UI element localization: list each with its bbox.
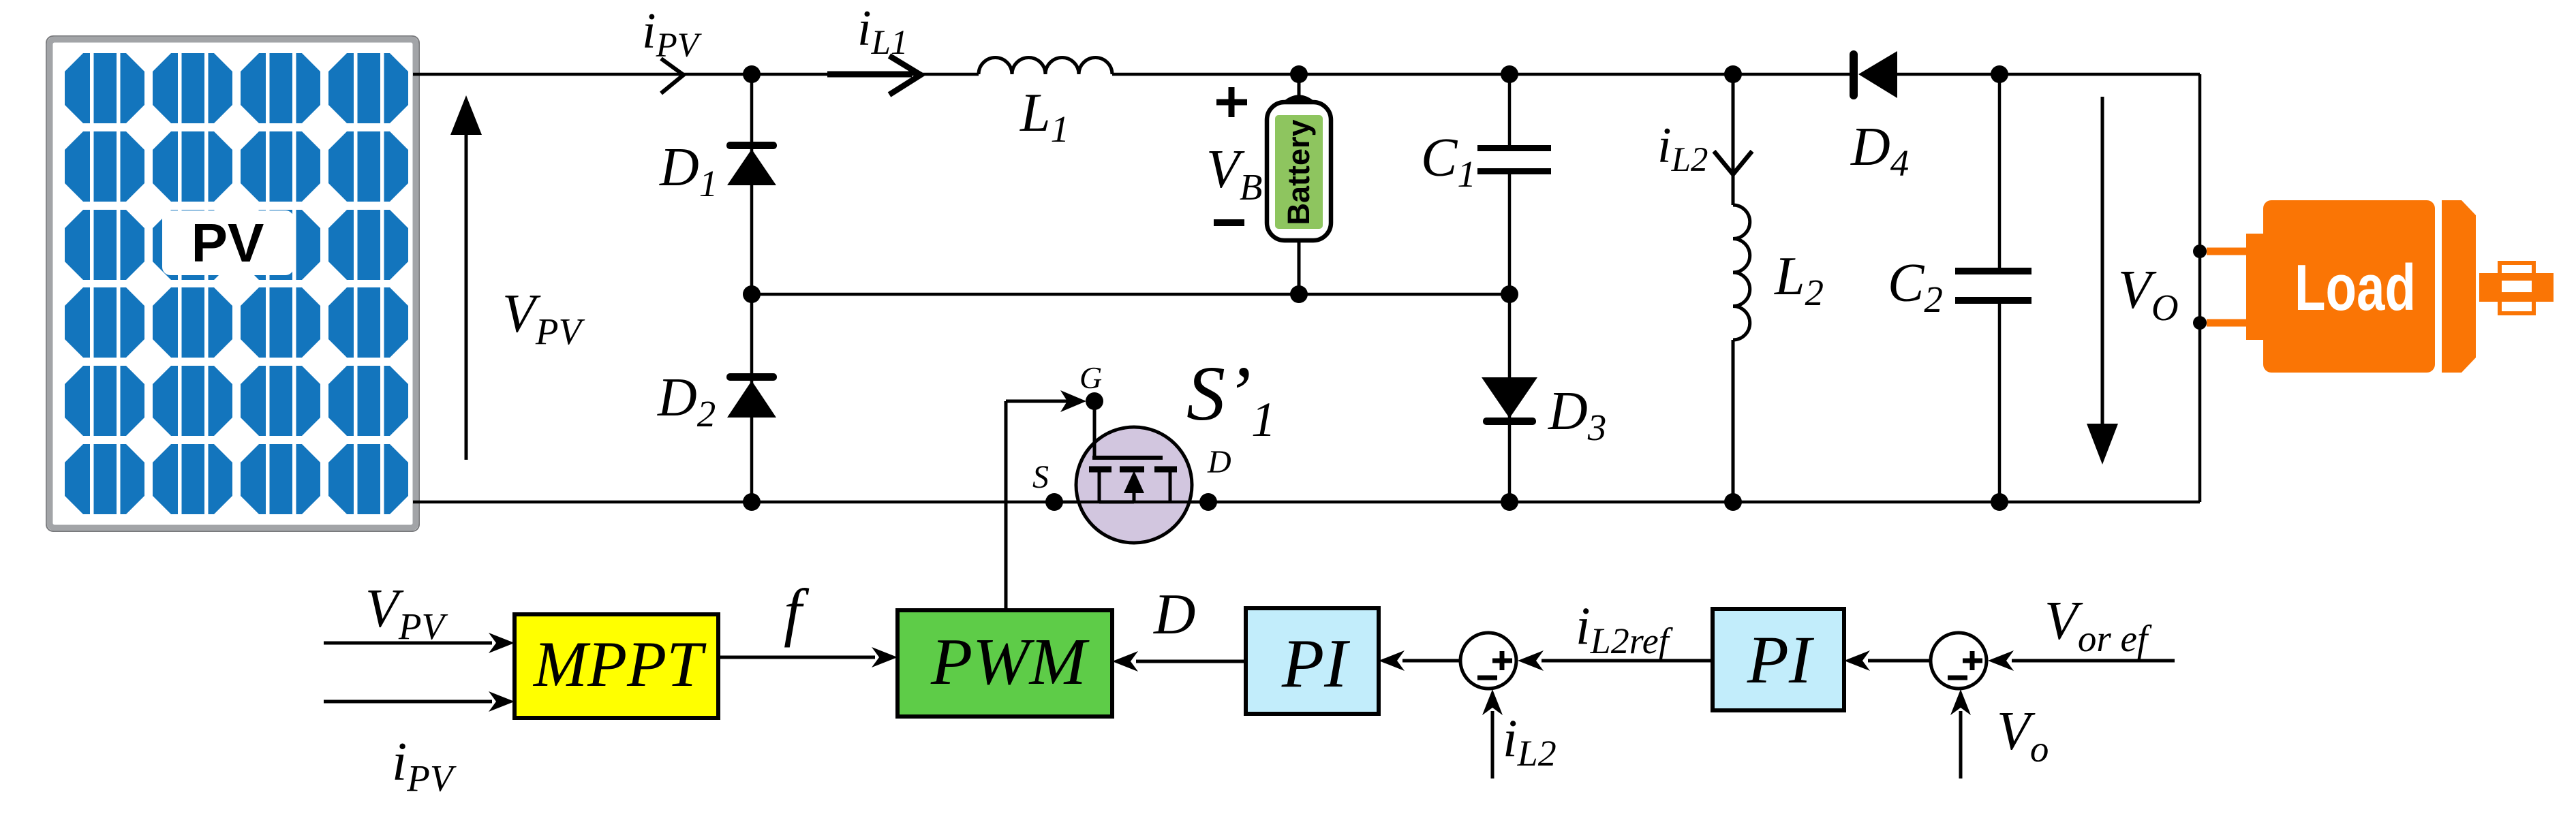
node A junction of D1 <box>743 65 761 83</box>
wire D3 branch <box>1508 294 1512 502</box>
wire right output branch <box>2198 74 2202 502</box>
wire f arrow <box>718 647 898 667</box>
wire top bus after D4 <box>1895 73 2200 76</box>
wire load stub top <box>2207 248 2248 255</box>
node C2 top <box>1991 65 2008 83</box>
wire L2 lower <box>1732 340 1735 502</box>
node C1 middle <box>1501 285 1518 303</box>
diode D2 <box>726 373 777 418</box>
summing junction 2 <box>1931 633 1987 689</box>
block PI current <box>1246 608 1379 714</box>
current arrow iL1 <box>827 56 921 95</box>
diode D1 <box>726 142 777 185</box>
wire iL2 feedback arrow <box>1482 689 1503 778</box>
pin D <box>1199 493 1217 511</box>
block PI voltage <box>1713 609 1844 710</box>
svg-text:D: D <box>1153 582 1195 646</box>
wire C1 branch <box>1508 74 1512 146</box>
svg-text:Load: Load <box>2295 251 2416 324</box>
wire load stub bottom <box>2207 319 2248 327</box>
svg-text:D: D <box>1207 444 1231 480</box>
svg-text:Battery: Battery <box>1281 119 1316 225</box>
wire VPV input arrow <box>324 633 515 653</box>
node battery bottom <box>1290 285 1308 303</box>
diode D4 <box>1850 50 1897 99</box>
node C1 top <box>1501 65 1518 83</box>
inductor L1 <box>979 57 1112 74</box>
current arrow iL2 <box>1714 151 1752 174</box>
label minus <box>1214 219 1244 226</box>
svg-text:PWM: PWM <box>930 625 1090 699</box>
wire D1 branch <box>750 74 754 294</box>
node D3 bottom <box>1501 493 1518 511</box>
svg-text:S: S <box>1032 459 1049 495</box>
wire PI1 input arrow <box>1379 650 1460 671</box>
block MPPT <box>515 614 718 718</box>
label + <box>1216 87 1247 117</box>
wire Voref arrow <box>1988 650 2175 671</box>
node battery top <box>1290 65 1308 83</box>
node output terminal bottom <box>2193 316 2207 330</box>
node L2 top <box>1724 65 1742 83</box>
wire gate drive <box>1006 390 1086 612</box>
arrow VPV <box>450 95 482 460</box>
wire middle bus <box>752 293 1509 296</box>
wire PI2 input arrow <box>1844 650 1931 671</box>
wire bottom bus <box>413 501 2200 504</box>
svg-text:PI: PI <box>1281 625 1350 702</box>
svg-text:PI: PI <box>1747 622 1815 697</box>
wire top bus after L1 <box>1112 73 1850 76</box>
node bottom of D2 <box>743 493 761 511</box>
wire C2 branch <box>1998 74 2002 268</box>
wire top bus <box>413 73 979 76</box>
arrow VO <box>2087 97 2118 465</box>
svg-text:G: G <box>1079 360 1102 395</box>
svg-text:MPPT: MPPT <box>532 628 707 700</box>
diode D3 <box>1482 377 1537 425</box>
PV module PV <box>46 36 419 531</box>
inductor L2 <box>1733 205 1750 340</box>
label PV <box>162 210 294 275</box>
node C2 bottom <box>1991 493 2008 511</box>
capacitor C2 <box>1955 268 2031 304</box>
current arrow iPV <box>661 59 684 93</box>
pin S <box>1045 493 1063 511</box>
node B junction D1-D2 <box>743 285 761 303</box>
wire iL2ref arrow <box>1518 650 1713 671</box>
pin G <box>1086 392 1103 410</box>
wire Vo feedback arrow <box>1950 689 1971 778</box>
wire L2 branch <box>1732 74 1735 205</box>
summing junction 1 <box>1460 633 1516 689</box>
block PWM <box>898 610 1112 717</box>
battery VB <box>1267 74 1331 294</box>
wire D2 branch <box>750 294 754 502</box>
transistor S'1 <box>1054 401 1208 543</box>
wire iPV input arrow <box>324 691 515 712</box>
load motor <box>2246 200 2554 373</box>
node output terminal top <box>2193 245 2207 258</box>
capacitor C1 <box>1477 145 1551 174</box>
node L2 bottom <box>1724 493 1742 511</box>
svg-text:PV: PV <box>191 213 264 273</box>
wire D arrow <box>1112 651 1246 672</box>
